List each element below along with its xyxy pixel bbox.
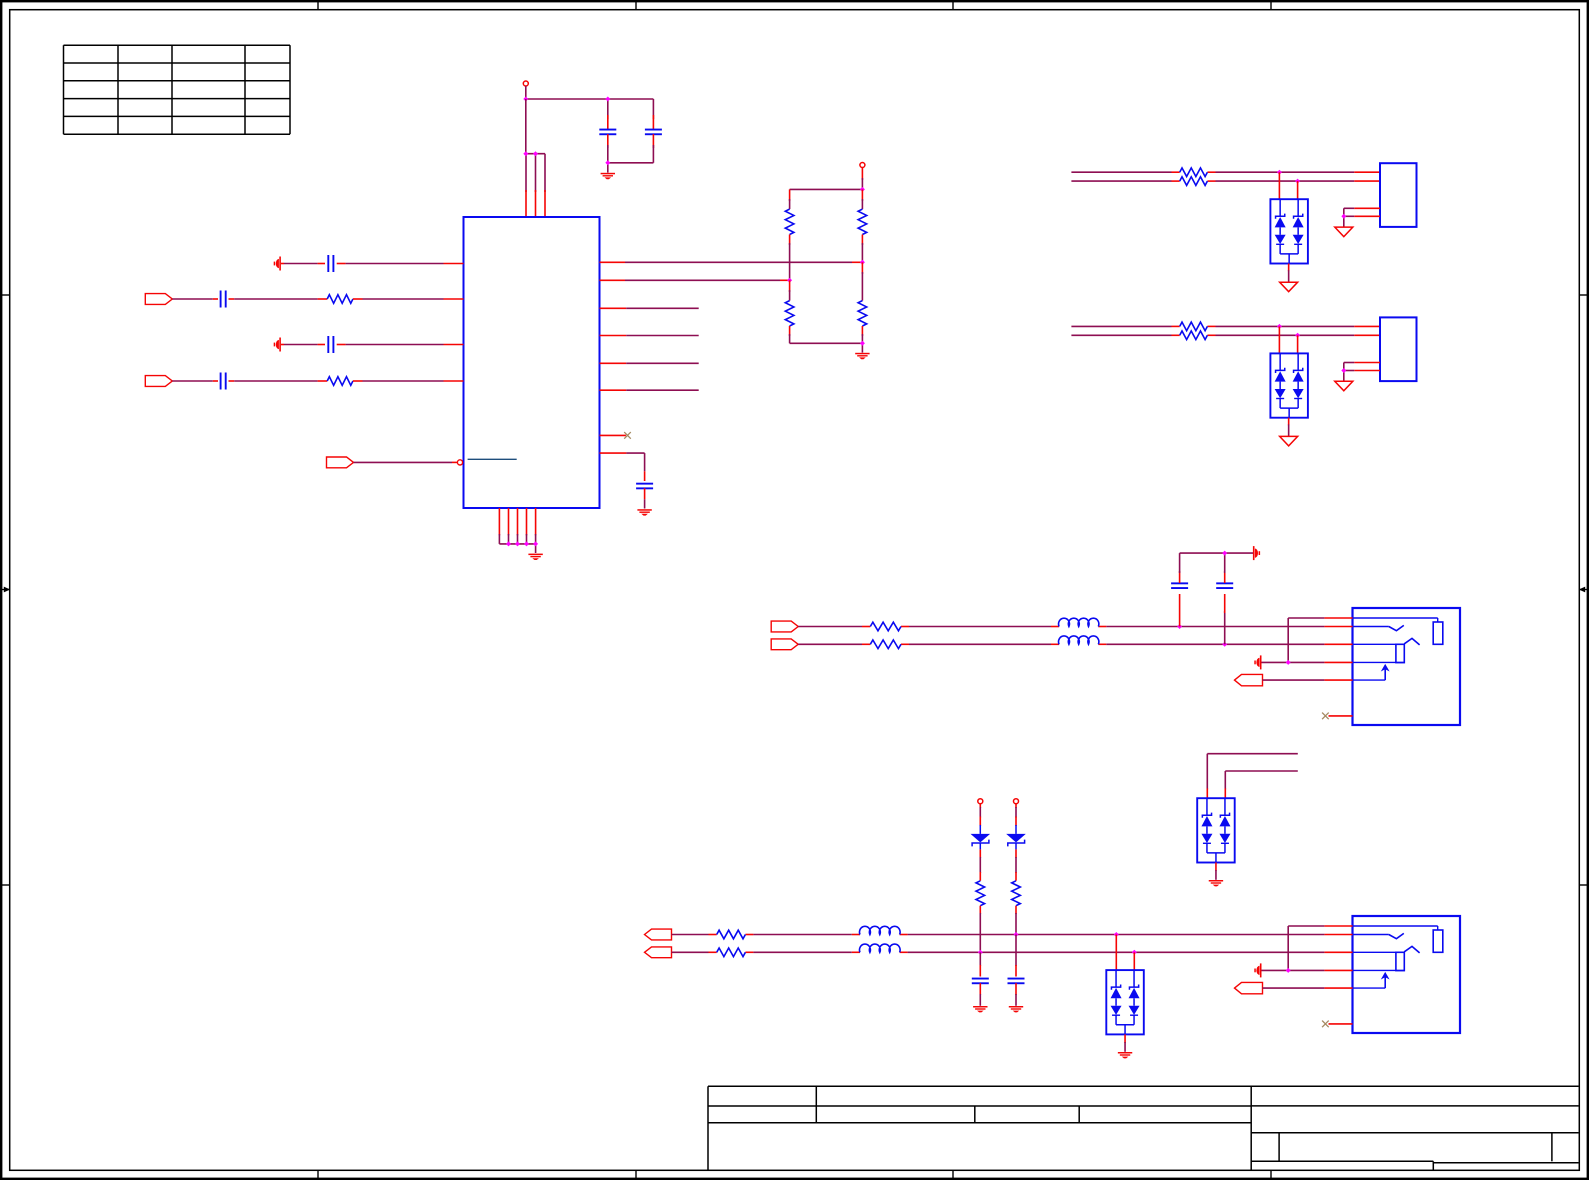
jack pins (1324, 926, 1352, 988)
no-connect pin (1322, 1021, 1352, 1028)
resistor R8a (1180, 322, 1208, 331)
resistor (870, 622, 901, 631)
resistor (976, 881, 985, 906)
junction (1295, 333, 1300, 338)
capacitor C7 (636, 483, 653, 509)
junction (1286, 660, 1291, 665)
connector J7 (1380, 163, 1417, 227)
junction (1277, 324, 1282, 329)
port DET3 (1235, 674, 1325, 685)
wire audio (798, 626, 1324, 628)
TVS diode array D7 (1270, 199, 1308, 263)
ground (973, 1006, 987, 1012)
wire stub (600, 335, 699, 337)
junction (1277, 170, 1282, 175)
resistor R5 (785, 280, 794, 343)
port EN and inverted pin (327, 457, 463, 468)
signal reference SP1 and capacitor C3 row (274, 255, 464, 272)
junction (533, 151, 538, 156)
resistor R7a (1180, 168, 1208, 177)
IC U1 (464, 217, 600, 508)
zener diode (1006, 804, 1026, 881)
zener diode (971, 804, 991, 881)
jack pins (1324, 618, 1352, 680)
wire line7 (1071, 171, 1380, 173)
wire (1015, 935, 1017, 977)
wire VREF (600, 453, 645, 481)
wire pack ground (1124, 1034, 1126, 1051)
junction (860, 341, 865, 346)
ground (1335, 381, 1353, 391)
wire line8 (1071, 334, 1380, 336)
resistor (1012, 881, 1021, 906)
wire OUTB (600, 279, 790, 281)
ground (855, 353, 869, 359)
junction (605, 160, 610, 165)
junction (1286, 968, 1291, 973)
ground (1280, 282, 1298, 292)
port IN1, capacitor C4, resistor R1 row (145, 291, 463, 308)
junction (1014, 932, 1019, 937)
ground (637, 509, 651, 515)
wire to TVS (1116, 935, 1134, 971)
wire lineA (1207, 754, 1298, 799)
wire divider top (790, 168, 863, 190)
wire (1015, 906, 1017, 935)
wire jack sleeve (1262, 926, 1325, 970)
ground (1009, 1006, 1023, 1012)
ferrite bead (1059, 636, 1099, 644)
wire cap tops (1180, 552, 1253, 554)
capacitor (972, 978, 989, 985)
resistor (717, 930, 746, 939)
junction (860, 187, 865, 192)
power terminal P2 (860, 163, 865, 168)
port LOUTR (645, 947, 672, 958)
ferrite bead (1059, 618, 1099, 626)
capacitor (1008, 978, 1025, 985)
wire pack ground (1288, 418, 1290, 437)
ground (1280, 436, 1298, 446)
TVS diode array D8 (1270, 353, 1308, 417)
wire (979, 906, 981, 953)
junction (1341, 368, 1346, 373)
wire shield (1344, 208, 1380, 227)
resistor R3 (785, 189, 794, 280)
resistor R6 (858, 262, 867, 343)
headphone jack J4 (1353, 916, 1461, 1033)
junction (860, 260, 865, 265)
junction (523, 151, 528, 156)
junction (1114, 932, 1119, 937)
ground (1209, 880, 1223, 886)
headphone jack J3 (1353, 608, 1461, 725)
ground (601, 173, 615, 179)
signal reference SP2 and capacitor C5 row (274, 336, 464, 353)
ground (528, 554, 542, 560)
power terminal (1014, 799, 1019, 804)
U1 ground pins wire (499, 508, 535, 553)
wire pack ground (1215, 863, 1217, 880)
wire to TVS (1279, 326, 1297, 353)
wire (979, 952, 981, 976)
ground (1335, 227, 1353, 237)
resistor R4 (858, 189, 867, 262)
port LOUTL (645, 929, 672, 940)
junction (1177, 624, 1182, 629)
port HPR (771, 639, 798, 650)
wire audio (798, 643, 1324, 645)
wire divider bottom (790, 343, 863, 352)
junction (787, 278, 792, 283)
power terminal P1 (523, 81, 528, 86)
junction (1222, 642, 1227, 647)
resistor (717, 948, 746, 957)
junction (515, 541, 520, 546)
wire lineB (1225, 771, 1298, 798)
port HPL (771, 621, 798, 632)
wire VDD (526, 86, 654, 119)
capacitor C8 (1171, 553, 1188, 626)
wire pack ground (1288, 264, 1290, 283)
capacitor C1 (599, 115, 616, 148)
signal reference (1254, 963, 1261, 977)
ferrite bead (859, 944, 900, 952)
power terminal (978, 799, 983, 804)
TVS diode array D9 (1197, 798, 1235, 862)
junction (605, 97, 610, 102)
ferrite bead (859, 926, 900, 934)
wire jack sleeve (1262, 618, 1325, 662)
wire line8 (1071, 325, 1380, 327)
resistor R8b (1180, 331, 1208, 340)
no-connect pin (1322, 713, 1352, 720)
port DET4 (1235, 982, 1325, 993)
connector J8 (1380, 317, 1417, 381)
no-connect pin (600, 432, 631, 439)
capacitor C2 (645, 115, 662, 148)
junction (523, 97, 528, 102)
junction (1132, 950, 1137, 955)
wire stub (600, 389, 699, 391)
resistor (870, 640, 901, 649)
capacitor C9 (1216, 553, 1233, 644)
junction (1341, 214, 1346, 219)
wire OUTA (600, 261, 863, 263)
wire audio (672, 934, 1325, 936)
wire line7 (1071, 180, 1380, 182)
title block (708, 1086, 1579, 1170)
ground (1118, 1052, 1132, 1058)
junction (1295, 179, 1300, 184)
wire audio (672, 951, 1325, 953)
wire shield (1344, 363, 1380, 382)
revision table (64, 45, 291, 134)
junction (524, 541, 529, 546)
wire stub (600, 307, 699, 309)
wire stub (600, 362, 699, 364)
net underline inside U1 (468, 458, 517, 460)
junction (506, 541, 511, 546)
junction (533, 541, 538, 546)
wire to TVS (1279, 172, 1297, 199)
junction (978, 950, 983, 955)
junction (1222, 551, 1227, 556)
TVS diode array (1106, 970, 1144, 1034)
wire (979, 983, 981, 1006)
port IN2, capacitor C6, resistor R2 row (145, 373, 463, 390)
signal reference (1254, 655, 1261, 669)
wire (1015, 983, 1017, 1006)
wire cap bottoms (608, 145, 654, 173)
resistor R7b (1180, 177, 1208, 186)
wire VDD to IC (526, 99, 545, 217)
signal reference (1253, 546, 1260, 560)
